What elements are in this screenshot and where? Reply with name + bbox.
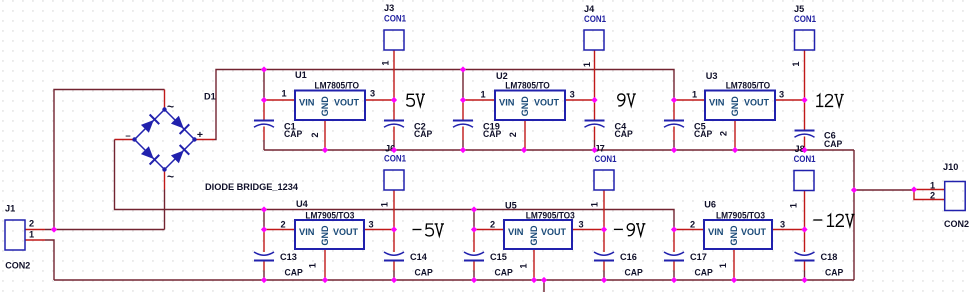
wire cap pin lower (red) x=674 bottom row bbox=[673, 261, 675, 271]
junction node gnd C6 bbox=[801, 147, 807, 153]
junction node gnd C4 bbox=[591, 147, 597, 153]
wire U3 VIN pin (red) bbox=[674, 99, 705, 101]
svg-text:CAP: CAP bbox=[284, 129, 302, 139]
junction node 9V output bbox=[591, 97, 597, 103]
wire U2 VOUT pin (red) bbox=[565, 99, 595, 101]
svg-text:LM7905/TO3: LM7905/TO3 bbox=[716, 211, 765, 221]
svg-text:VIN: VIN bbox=[508, 227, 524, 237]
capacitor C5 bbox=[664, 121, 684, 128]
capacitor C15 bbox=[464, 252, 484, 261]
wire cap leg lower x=804.5 bottom row bbox=[804, 271, 806, 281]
wire U4 VIN pin (red) bbox=[264, 229, 295, 231]
wire J8 pin riser (red) bbox=[804, 190, 806, 230]
wire J5 pin riser (red) bbox=[804, 50, 806, 100]
node label 5V bbox=[407, 94, 426, 106]
wire J3 pin riser (red) bbox=[393, 50, 395, 100]
capacitor C18 bbox=[795, 252, 815, 261]
svg-text:VOUT: VOUT bbox=[334, 97, 359, 107]
connector J7 body bbox=[594, 170, 614, 190]
svg-text:1: 1 bbox=[582, 62, 592, 67]
junction node gnd C18 bbox=[801, 277, 807, 283]
wire cap pin lower (red) x=264 bottom row bbox=[263, 261, 265, 271]
svg-text:U3: U3 bbox=[706, 71, 718, 81]
junction node gnd U1 bbox=[322, 147, 328, 153]
wire ground link right side bbox=[853, 150, 855, 280]
svg-text:2: 2 bbox=[29, 219, 34, 229]
svg-text:U6: U6 bbox=[704, 199, 716, 209]
wire cap C6 pin top (red) bbox=[804, 100, 806, 131]
wire bridge top AC pin (red) bbox=[164, 90, 166, 110]
connector J8 body bbox=[794, 171, 814, 191]
svg-text:GND: GND bbox=[729, 225, 739, 245]
capacitor C14 bbox=[384, 252, 404, 261]
svg-text:CAP: CAP bbox=[824, 139, 842, 149]
node label 9V bbox=[618, 94, 636, 106]
node label 12V bbox=[816, 95, 844, 107]
svg-text:CAP: CAP bbox=[495, 268, 513, 278]
wire cap pin top (red) x=463 bbox=[462, 100, 464, 121]
svg-text:1: 1 bbox=[29, 230, 34, 240]
svg-text:J4: J4 bbox=[584, 4, 595, 14]
svg-text:GND: GND bbox=[320, 96, 330, 116]
diode bridge D1 bbox=[135, 110, 195, 170]
junction node gnd C19 bbox=[460, 147, 466, 153]
svg-text:VIN: VIN bbox=[709, 97, 725, 107]
junction node gnd C16 bbox=[601, 277, 607, 283]
capacitor C2 bbox=[384, 121, 404, 128]
capacitor C6 bbox=[795, 131, 815, 138]
svg-text:1: 1 bbox=[930, 181, 935, 191]
wire cap pin bottom (red) x=463 bbox=[462, 127, 464, 141]
junction node U6 VIN bbox=[671, 226, 677, 232]
svg-text:VIN: VIN bbox=[299, 227, 315, 237]
wire positive raw bus from bridge plus bbox=[215, 70, 675, 140]
junction node U5 VIN bbox=[471, 226, 477, 232]
junction node gnd C13 bbox=[261, 277, 267, 283]
connector J4 body bbox=[584, 30, 604, 50]
wire cap pin bottom (red) x=674 bbox=[673, 127, 675, 141]
wire J4 pin riser (red) bbox=[594, 50, 596, 100]
wire J1 pin1 stub (red) bbox=[25, 239, 45, 241]
svg-text:DIODE BRIDGE_1234: DIODE BRIDGE_1234 bbox=[205, 182, 299, 192]
wire cap pin bottom (red) x=594.5 bbox=[594, 127, 596, 141]
wire cap pin upper (red) x=604 bottom row bbox=[603, 230, 605, 253]
wire U5 VIN pin (red) bbox=[474, 229, 504, 231]
wire VIN riser U5 column bbox=[473, 210, 475, 230]
wire cap pin upper (red) x=394 bottom row bbox=[393, 230, 395, 253]
svg-text:~: ~ bbox=[167, 100, 174, 114]
junction node gnd U3 bbox=[732, 147, 738, 153]
wire riser to bridge bottom AC terminal bbox=[164, 190, 166, 230]
junction node gnd C5 bbox=[671, 147, 677, 153]
node label -9V bbox=[614, 224, 646, 236]
svg-text:2: 2 bbox=[280, 220, 285, 230]
svg-text:1: 1 bbox=[480, 90, 485, 100]
wire bottom ground bus bbox=[54, 279, 854, 281]
svg-text:D1: D1 bbox=[204, 92, 216, 102]
svg-text:CON1: CON1 bbox=[584, 14, 606, 24]
wire cap leg bottom x=264 bbox=[263, 140, 265, 150]
wire U4 GND pin (red) bbox=[324, 249, 326, 280]
svg-text:GND: GND bbox=[730, 96, 740, 116]
wire J1 pin2 net to bridge AC bbox=[45, 229, 165, 231]
junction node gnd C15 bbox=[471, 277, 477, 283]
svg-text:CON1: CON1 bbox=[794, 154, 816, 164]
junction node U2 VIN bbox=[460, 97, 466, 103]
svg-text:VOUT: VOUT bbox=[541, 227, 566, 237]
junction node gnd U2 bbox=[521, 147, 527, 153]
svg-text:CON2: CON2 bbox=[944, 219, 969, 229]
junction node -raw U5 branch bbox=[471, 206, 477, 212]
svg-text:CON1: CON1 bbox=[384, 154, 406, 164]
svg-text:LM7805/TO: LM7805/TO bbox=[505, 80, 550, 90]
wire ground stub below bus bbox=[543, 280, 545, 292]
capacitor C4 bbox=[585, 121, 605, 128]
wire cap leg lower x=394 bottom row bbox=[393, 271, 395, 281]
svg-text:C13: C13 bbox=[280, 252, 297, 262]
junction node J1 pin2 AC bbox=[51, 226, 57, 232]
svg-text:VOUT: VOUT bbox=[744, 97, 769, 107]
svg-text:VOUT: VOUT bbox=[333, 227, 358, 237]
capacitor C16 bbox=[594, 252, 614, 261]
wire cap leg lower x=604 bottom row bbox=[603, 271, 605, 281]
svg-text:GND: GND bbox=[520, 96, 530, 116]
svg-text:LM7805/TO: LM7805/TO bbox=[726, 80, 771, 90]
svg-text:3: 3 bbox=[578, 220, 583, 230]
wire cap leg bottom x=463 bbox=[462, 140, 464, 150]
svg-text:2: 2 bbox=[690, 220, 695, 230]
junction node gnd stub bbox=[541, 277, 547, 283]
svg-text:U5: U5 bbox=[505, 200, 517, 210]
connector J5 body bbox=[795, 30, 815, 50]
svg-text:2: 2 bbox=[930, 190, 935, 200]
svg-text:2: 2 bbox=[490, 220, 495, 230]
svg-text:1: 1 bbox=[381, 60, 391, 65]
svg-text:GND: GND bbox=[320, 225, 330, 245]
svg-text:–: – bbox=[125, 131, 130, 142]
svg-text:CAP: CAP bbox=[615, 129, 633, 139]
svg-text:3: 3 bbox=[570, 90, 575, 100]
svg-text:1: 1 bbox=[789, 203, 799, 208]
junction node -9V output bbox=[601, 226, 607, 232]
node label -5V bbox=[413, 224, 445, 236]
svg-text:CAP: CAP bbox=[285, 268, 303, 278]
wire U4 VOUT pin (red) bbox=[364, 229, 394, 231]
capacitor C13 bbox=[254, 252, 274, 261]
op-amp U4 LM7905 regulator body bbox=[295, 220, 364, 249]
node label -12V bbox=[813, 214, 854, 226]
wire cap pin top (red) x=394 bbox=[393, 100, 395, 121]
wire U2 GND pin (red) bbox=[524, 120, 526, 150]
connector J6 body bbox=[384, 170, 404, 190]
svg-text:1: 1 bbox=[281, 88, 286, 98]
wire cap leg bottom x=594.5 bbox=[594, 140, 596, 150]
junction node 12V output bbox=[801, 97, 807, 103]
junction node gnd U6 bbox=[731, 277, 737, 283]
op-amp U1 LM7805 regulator body bbox=[295, 91, 365, 121]
wire U1 VOUT pin (red) bbox=[365, 99, 394, 101]
svg-text:GND: GND bbox=[529, 225, 539, 245]
wire VIN riser U1 column bbox=[263, 70, 265, 101]
wire cap pin top (red) x=594.5 bbox=[594, 100, 596, 121]
svg-text:VOUT: VOUT bbox=[534, 97, 559, 107]
svg-text:VIN: VIN bbox=[299, 97, 315, 107]
svg-text:~: ~ bbox=[167, 170, 174, 184]
svg-text:1: 1 bbox=[380, 202, 390, 207]
wire cap pin bottom (red) x=264 bbox=[263, 127, 265, 141]
wire cap pin lower (red) x=474 bottom row bbox=[473, 261, 475, 271]
wire cap pin top (red) x=264 bbox=[263, 100, 265, 121]
wire cap pin upper (red) x=674 bottom row bbox=[673, 230, 675, 253]
svg-text:3: 3 bbox=[779, 90, 784, 100]
wire U5 VOUT pin (red) bbox=[572, 229, 604, 231]
svg-text:VIN: VIN bbox=[499, 97, 515, 107]
wire J7 pin riser (red) bbox=[603, 190, 605, 230]
svg-text:J5: J5 bbox=[794, 4, 804, 14]
wire bridge minus pin (red) bbox=[115, 139, 135, 141]
wire cap leg lower x=474 bottom row bbox=[473, 271, 475, 281]
svg-text:LM7905/TO3: LM7905/TO3 bbox=[526, 211, 575, 221]
wire cap leg bottom x=674 bbox=[673, 140, 675, 150]
svg-text:CAP: CAP bbox=[414, 129, 432, 139]
junction node -5V output bbox=[391, 226, 397, 232]
wire cap leg bottom x=394 bbox=[393, 140, 395, 150]
svg-text:CAP: CAP bbox=[625, 268, 643, 278]
svg-text:VIN: VIN bbox=[708, 227, 724, 237]
capacitor C19 bbox=[453, 121, 473, 128]
svg-text:C17: C17 bbox=[690, 252, 707, 262]
wire J1 pin2 stub (red) bbox=[25, 229, 45, 231]
svg-text:J3: J3 bbox=[384, 3, 394, 13]
wire cap pin lower (red) x=804.5 bottom row bbox=[804, 261, 806, 271]
svg-text:CAP: CAP bbox=[695, 268, 713, 278]
wire cap pin top (red) x=674 bbox=[673, 100, 675, 121]
wire VIN riser U4 column bbox=[263, 210, 265, 230]
wire bridge plus pin (red) bbox=[195, 139, 215, 141]
svg-text:1: 1 bbox=[692, 90, 697, 100]
capacitor C17 bbox=[664, 252, 684, 261]
junction node gnd U4 bbox=[322, 277, 328, 283]
connector J1 body bbox=[5, 220, 25, 250]
svg-text:1: 1 bbox=[519, 263, 529, 268]
wire cap pin lower (red) x=394 bottom row bbox=[393, 261, 395, 271]
wire U6 VIN pin (red) bbox=[674, 229, 704, 231]
svg-text:CON2: CON2 bbox=[5, 261, 30, 271]
svg-text:C14: C14 bbox=[410, 252, 428, 262]
junction node J10 pins bbox=[911, 186, 917, 192]
wire cap pin bottom (red) x=394 bbox=[393, 127, 395, 141]
svg-text:3: 3 bbox=[370, 88, 375, 98]
svg-text:C18: C18 bbox=[821, 252, 838, 262]
wire U1 VIN pin (red) bbox=[264, 99, 295, 101]
junction node +raw / C1 branch bbox=[261, 66, 267, 72]
op-amp U2 LM7805 regulator body bbox=[495, 91, 565, 121]
wire U5 GND pin (red) bbox=[533, 249, 535, 280]
svg-text:LM7905/TO3: LM7905/TO3 bbox=[305, 211, 354, 221]
wire cap C6 pin bottom (red) bbox=[804, 137, 806, 151]
junction node -raw U4 branch bbox=[261, 206, 267, 212]
junction node gnd C14 bbox=[391, 277, 397, 283]
wire VIN riser U2 column bbox=[462, 70, 464, 101]
wire U6 VOUT pin (red) bbox=[772, 229, 805, 231]
junction node U3 VIN bbox=[671, 97, 677, 103]
svg-text:1: 1 bbox=[308, 263, 318, 268]
op-amp U6 LM7905 regulator body bbox=[704, 220, 772, 249]
op-amp U3 LM7805 regulator body bbox=[705, 91, 775, 121]
wire J10 pin2 (red) bbox=[914, 190, 944, 200]
connector J3 body bbox=[384, 30, 404, 50]
svg-text:U1: U1 bbox=[295, 70, 307, 80]
wire cap pin upper (red) x=804.5 bottom row bbox=[804, 230, 806, 253]
svg-text:CON1: CON1 bbox=[384, 14, 406, 24]
connector J10 body bbox=[945, 182, 966, 211]
svg-text:CAP: CAP bbox=[483, 129, 501, 139]
capacitor C1 bbox=[254, 121, 274, 128]
svg-text:J10: J10 bbox=[943, 162, 958, 172]
wire cap pin lower (red) x=604 bottom row bbox=[603, 261, 605, 271]
svg-text:U4: U4 bbox=[296, 199, 309, 209]
wire U1 GND pin (red) bbox=[324, 120, 326, 150]
svg-text:J1: J1 bbox=[5, 204, 15, 214]
wire cap leg lower x=264 bottom row bbox=[263, 271, 265, 281]
svg-text:C15: C15 bbox=[490, 252, 507, 262]
svg-text:C16: C16 bbox=[620, 252, 637, 262]
wire J1 pin1 to bottom ground bus bbox=[45, 240, 54, 280]
svg-text:CAP: CAP bbox=[694, 129, 712, 139]
junction node -12V output bbox=[801, 226, 807, 232]
svg-text:+: + bbox=[197, 129, 203, 141]
wire cap pin upper (red) x=264 bottom row bbox=[263, 230, 265, 253]
wire U6 GND pin (red) bbox=[733, 249, 735, 280]
wire AC net left riser x=54 bbox=[54, 90, 165, 230]
wire mid ground bus bbox=[264, 149, 854, 151]
junction node 5V output bbox=[391, 97, 397, 103]
svg-text:1: 1 bbox=[590, 202, 600, 207]
svg-text:3: 3 bbox=[780, 220, 785, 230]
wire ground feed to J10 bbox=[854, 189, 914, 191]
svg-text:1: 1 bbox=[791, 61, 801, 66]
wire cap leg lower x=674 bottom row bbox=[673, 271, 675, 281]
wire U3 VOUT pin (red) bbox=[775, 99, 805, 101]
svg-text:CAP: CAP bbox=[415, 268, 433, 278]
svg-text:1: 1 bbox=[718, 263, 728, 268]
wire U3 GND pin (red) bbox=[734, 120, 736, 150]
junction node U4 VIN bbox=[261, 226, 267, 232]
svg-text:2: 2 bbox=[719, 131, 729, 136]
wire U2 VIN pin (red) bbox=[463, 99, 495, 101]
svg-text:CON1: CON1 bbox=[595, 154, 617, 164]
svg-text:LM7805/TO: LM7805/TO bbox=[315, 80, 360, 90]
svg-text:CON1: CON1 bbox=[794, 14, 816, 24]
wire J10 pin1 (red) bbox=[914, 189, 944, 191]
junction node U1 VIN bbox=[261, 97, 267, 103]
junction node gnd right link bbox=[851, 187, 857, 193]
junction node gnd C17 bbox=[671, 277, 677, 283]
wire cap pin upper (red) x=474 bottom row bbox=[473, 230, 475, 253]
svg-text:CAP: CAP bbox=[825, 268, 843, 278]
op-amp U5 LM7905 regulator body bbox=[504, 220, 572, 249]
svg-text:3: 3 bbox=[368, 220, 373, 230]
svg-text:2: 2 bbox=[310, 132, 320, 137]
wire negative raw bus from bridge minus bbox=[115, 140, 675, 230]
junction node gnd C2 bbox=[391, 147, 397, 153]
wire bridge bottom AC pin (red) bbox=[164, 170, 166, 190]
svg-text:VOUT: VOUT bbox=[741, 227, 766, 237]
svg-text:2: 2 bbox=[508, 132, 518, 137]
junction node +raw / C19 branch bbox=[460, 66, 466, 72]
wire J6 pin riser (red) bbox=[393, 190, 395, 230]
junction node gnd U5 bbox=[531, 277, 537, 283]
